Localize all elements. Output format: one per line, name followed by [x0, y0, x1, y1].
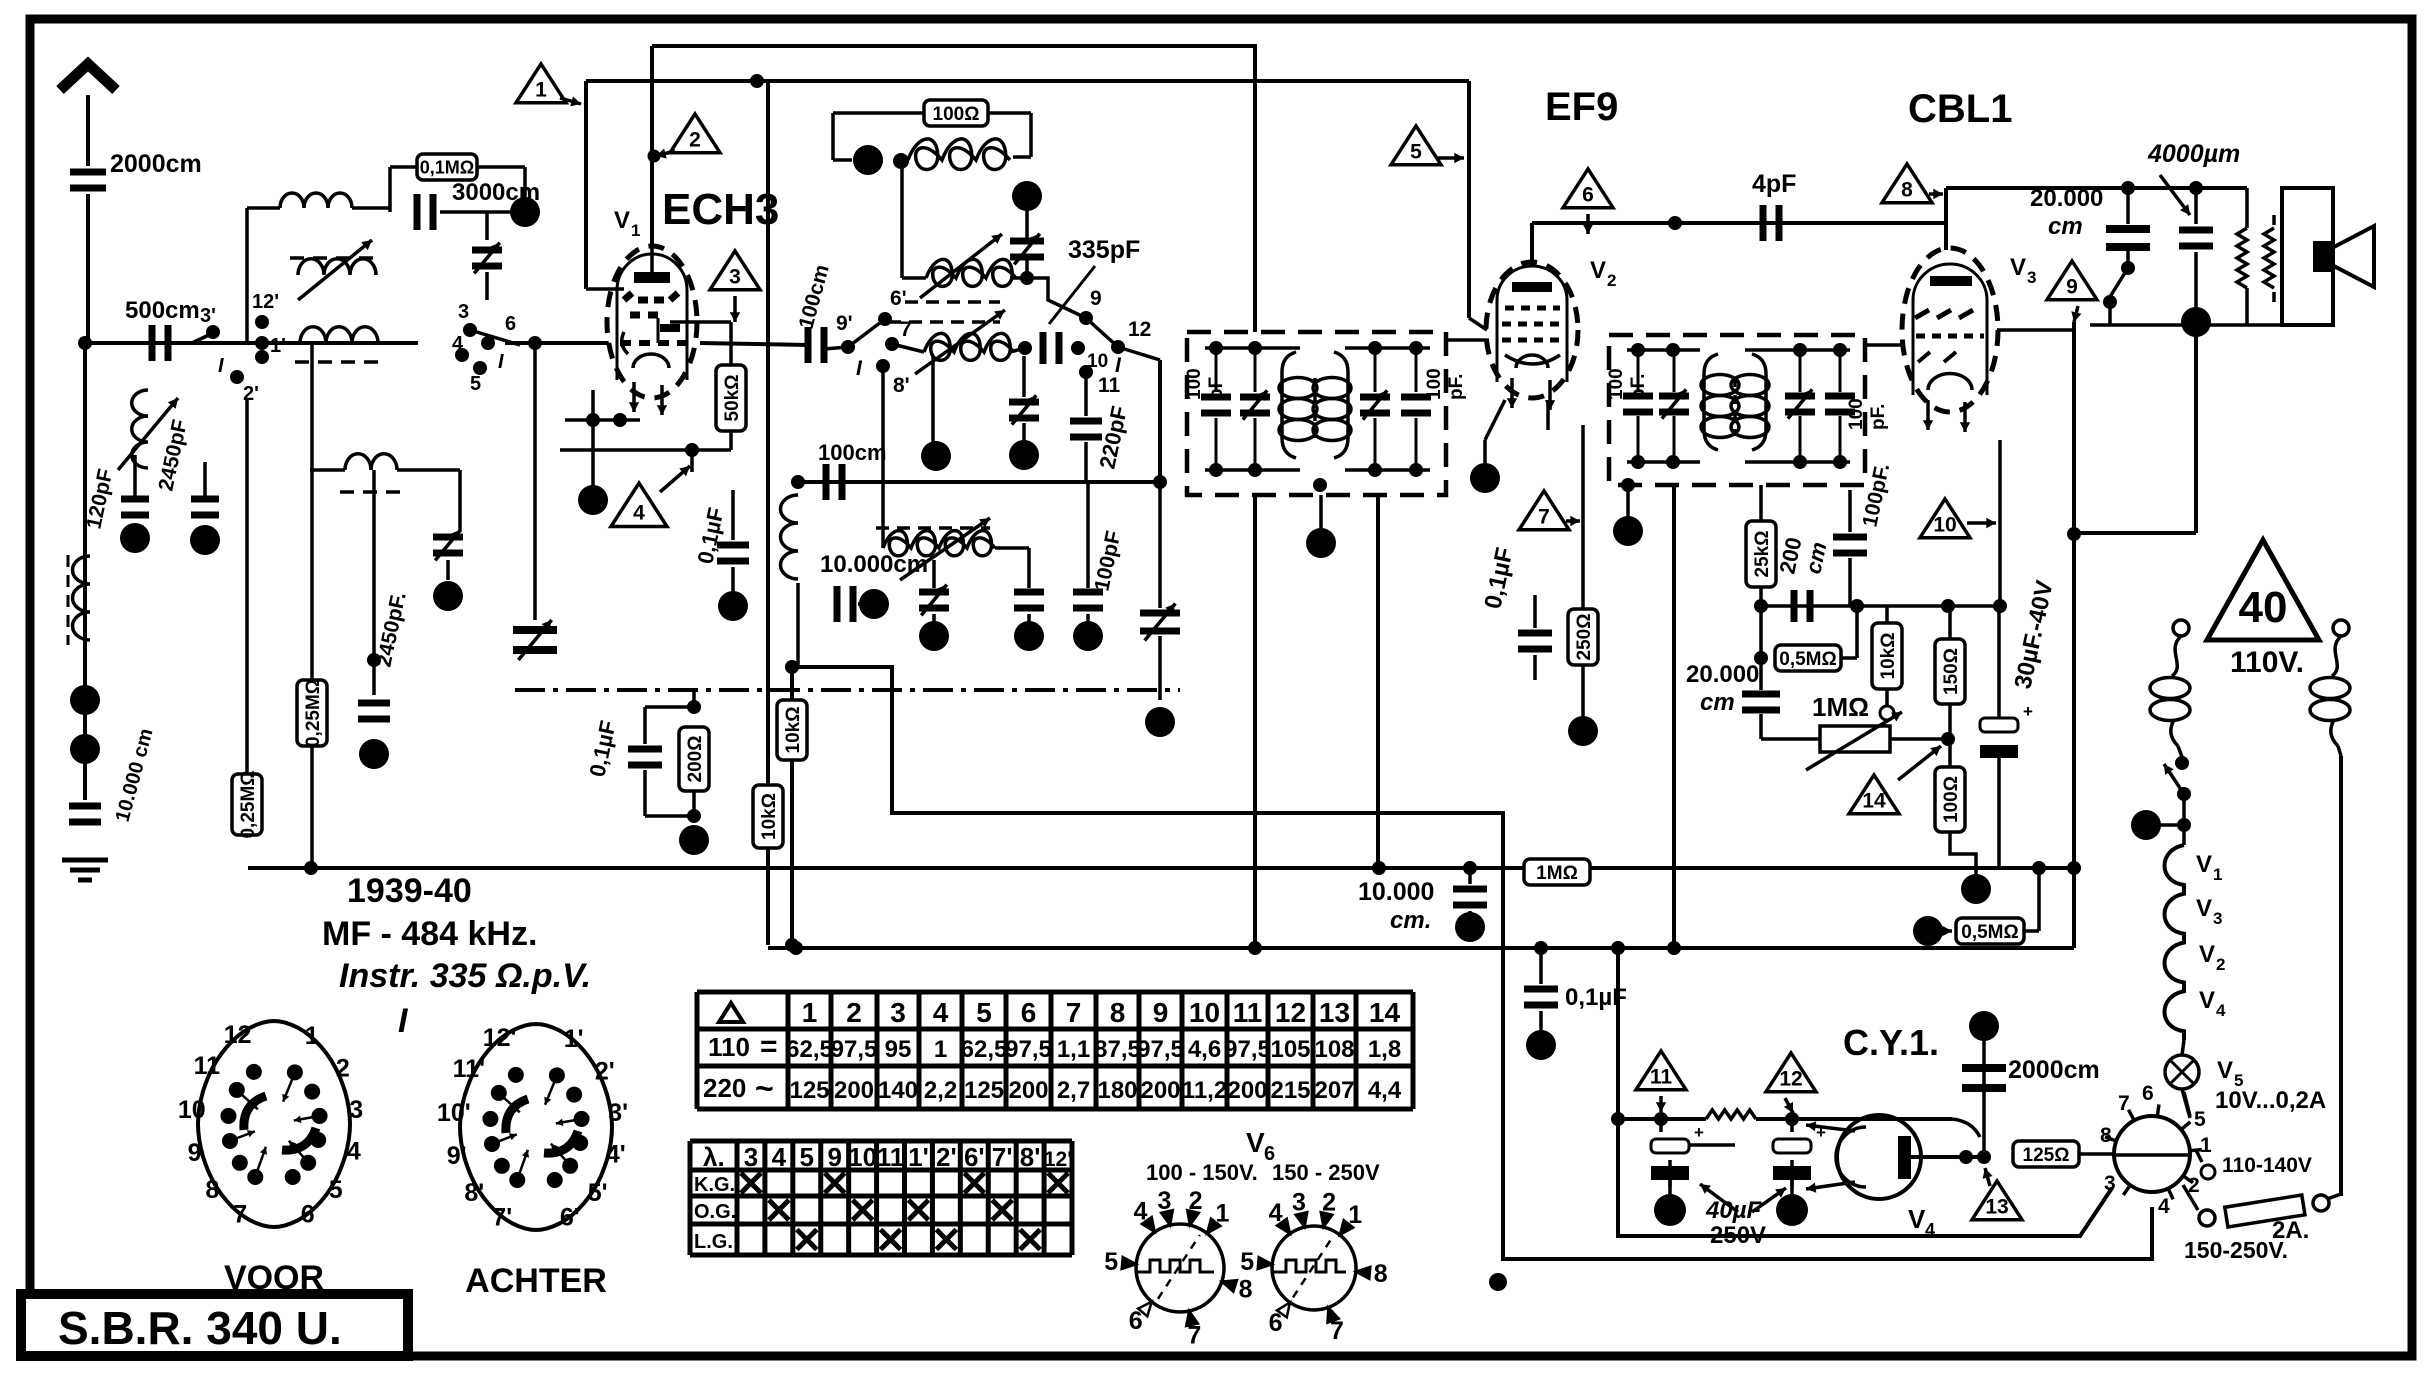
- svg-text:1': 1': [564, 1025, 584, 1053]
- svg-text:3': 3': [200, 305, 216, 327]
- svg-text:4: 4: [2158, 1195, 2170, 1218]
- svg-text:4: 4: [933, 997, 949, 1028]
- svg-text:10V...0,2A: 10V...0,2A: [2215, 1087, 2326, 1114]
- svg-text:2': 2': [595, 1058, 615, 1086]
- svg-text:500cm: 500cm: [125, 297, 200, 324]
- svg-text:3: 3: [729, 266, 741, 289]
- svg-text:6: 6: [1582, 184, 1594, 207]
- svg-text:V: V: [2199, 941, 2215, 968]
- svg-text:2: 2: [1607, 271, 1616, 290]
- svg-text:10: 10: [1933, 514, 1956, 537]
- svg-text:8': 8': [464, 1179, 484, 1207]
- svg-text:3: 3: [349, 1096, 363, 1124]
- svg-text:0,5MΩ: 0,5MΩ: [1779, 649, 1836, 670]
- svg-text:MF - 484 kHz.: MF - 484 kHz.: [322, 915, 537, 953]
- svg-text:100: 100: [1184, 368, 1205, 400]
- svg-text:6': 6': [560, 1203, 580, 1231]
- svg-text:220: 220: [703, 1073, 746, 1103]
- svg-text:pF.: pF.: [1868, 404, 1889, 430]
- svg-text:50kΩ: 50kΩ: [722, 375, 743, 422]
- svg-text:62,5: 62,5: [961, 1036, 1008, 1063]
- svg-text:1: 1: [1216, 1200, 1230, 1228]
- svg-text:125Ω: 125Ω: [2023, 1145, 2070, 1166]
- svg-text:3: 3: [744, 1142, 758, 1172]
- svg-text:200: 200: [834, 1077, 874, 1104]
- svg-text:97,5: 97,5: [1137, 1036, 1184, 1063]
- svg-text:6: 6: [1021, 997, 1037, 1028]
- svg-text:180: 180: [1097, 1077, 1137, 1104]
- svg-text:3: 3: [1158, 1187, 1172, 1215]
- svg-text:1MΩ: 1MΩ: [1812, 692, 1869, 722]
- svg-text:10: 10: [848, 1142, 877, 1172]
- svg-text:97,5: 97,5: [1005, 1036, 1052, 1063]
- svg-text:2: 2: [846, 997, 862, 1028]
- svg-text:8: 8: [1110, 997, 1126, 1028]
- svg-text:I: I: [398, 1002, 409, 1040]
- svg-text:10.000cm: 10.000cm: [820, 551, 928, 578]
- svg-text:1: 1: [934, 1036, 947, 1063]
- svg-text:ECH3: ECH3: [662, 185, 779, 234]
- svg-text:2: 2: [1189, 1187, 1203, 1215]
- svg-text:1: 1: [1348, 1201, 1362, 1229]
- svg-text:9': 9': [447, 1142, 467, 1170]
- svg-text:4,4: 4,4: [1368, 1077, 1402, 1104]
- svg-text:1MΩ: 1MΩ: [1536, 863, 1578, 884]
- svg-text:EF9: EF9: [1545, 85, 1618, 129]
- svg-text:8: 8: [205, 1176, 219, 1204]
- svg-text:6: 6: [1129, 1307, 1143, 1335]
- svg-text:150Ω: 150Ω: [1941, 648, 1962, 695]
- svg-text:5: 5: [1410, 141, 1422, 164]
- svg-text:2: 2: [1322, 1189, 1336, 1217]
- svg-text:110-140V: 110-140V: [2222, 1154, 2312, 1177]
- svg-text:1: 1: [305, 1022, 319, 1050]
- svg-text:14: 14: [1862, 790, 1886, 813]
- svg-text:250V: 250V: [1710, 1222, 1766, 1249]
- svg-text:V: V: [1590, 257, 1606, 284]
- svg-text:11: 11: [194, 1052, 221, 1080]
- svg-text:200Ω: 200Ω: [685, 736, 706, 783]
- svg-text:4000µm: 4000µm: [2147, 140, 2240, 168]
- svg-text:4: 4: [772, 1142, 787, 1172]
- svg-text:C.Y.1.: C.Y.1.: [1843, 1022, 1939, 1063]
- svg-text:95: 95: [885, 1036, 912, 1063]
- svg-text:9': 9': [836, 312, 853, 335]
- svg-text:10: 10: [1087, 351, 1108, 372]
- svg-text:+: +: [2023, 702, 2033, 721]
- svg-text:5: 5: [1104, 1248, 1118, 1276]
- svg-text:8': 8': [1020, 1142, 1041, 1172]
- svg-text:8: 8: [1901, 179, 1913, 202]
- svg-text:9: 9: [188, 1139, 202, 1167]
- svg-text:8: 8: [1374, 1260, 1388, 1288]
- svg-text:100Ω: 100Ω: [933, 104, 980, 125]
- svg-text:108: 108: [1314, 1036, 1354, 1063]
- svg-text:7': 7': [992, 1142, 1013, 1172]
- svg-text:5: 5: [800, 1142, 814, 1172]
- svg-text:4: 4: [1133, 1197, 1147, 1225]
- svg-text:20.000: 20.000: [1686, 661, 1759, 688]
- svg-text:8: 8: [2100, 1124, 2112, 1147]
- svg-text:25kΩ: 25kΩ: [1752, 531, 1773, 578]
- svg-text:12: 12: [1128, 318, 1151, 341]
- svg-text:1: 1: [2213, 865, 2222, 884]
- svg-text:1: 1: [2200, 1134, 2212, 1157]
- svg-text:13: 13: [1985, 1196, 2008, 1219]
- svg-text:3: 3: [2213, 909, 2222, 928]
- svg-text:100: 100: [1846, 398, 1867, 430]
- svg-text:0,5MΩ: 0,5MΩ: [1961, 922, 2018, 943]
- svg-text:5: 5: [1240, 1248, 1254, 1276]
- svg-text:V: V: [1246, 1127, 1265, 1158]
- svg-text:V: V: [2196, 895, 2212, 922]
- svg-text:100cm: 100cm: [818, 440, 887, 465]
- svg-text:5': 5': [588, 1179, 608, 1207]
- svg-text:12': 12': [483, 1024, 517, 1052]
- svg-text:pF.: pF.: [1628, 374, 1649, 400]
- svg-text:7: 7: [1187, 1321, 1201, 1349]
- svg-text:150 - 250V: 150 - 250V: [1272, 1160, 1380, 1185]
- svg-text:4: 4: [1269, 1199, 1283, 1227]
- svg-text:100: 100: [1424, 368, 1445, 400]
- svg-text:11': 11': [453, 1055, 485, 1083]
- svg-text:11,2: 11,2: [1182, 1077, 1227, 1104]
- svg-text:cm.: cm.: [1390, 907, 1431, 934]
- svg-text:2,2: 2,2: [924, 1077, 957, 1104]
- svg-text:2000cm: 2000cm: [2008, 1056, 2100, 1084]
- svg-text:97,5: 97,5: [1224, 1036, 1271, 1063]
- svg-text:6: 6: [1269, 1309, 1283, 1337]
- svg-text:87,5: 87,5: [1094, 1036, 1141, 1063]
- svg-text:0,1MΩ: 0,1MΩ: [420, 157, 474, 177]
- svg-text:7: 7: [2118, 1092, 2130, 1115]
- svg-text:2,7: 2,7: [1057, 1077, 1090, 1104]
- svg-text:125: 125: [964, 1077, 1004, 1104]
- svg-text:12: 12: [1275, 997, 1306, 1028]
- svg-text:V: V: [2196, 851, 2212, 878]
- svg-text:207: 207: [1314, 1077, 1354, 1104]
- svg-text:11: 11: [1233, 997, 1263, 1028]
- svg-text:4: 4: [633, 502, 645, 525]
- svg-text:1,1: 1,1: [1057, 1036, 1090, 1063]
- svg-text:10: 10: [178, 1096, 206, 1124]
- svg-text:V: V: [2199, 987, 2215, 1014]
- svg-text:140: 140: [878, 1077, 918, 1104]
- svg-text:V: V: [614, 207, 630, 234]
- svg-text:97,5: 97,5: [831, 1036, 878, 1063]
- svg-text:4: 4: [452, 333, 464, 355]
- svg-text:1939-40: 1939-40: [347, 872, 472, 910]
- svg-text:3: 3: [1292, 1189, 1306, 1217]
- svg-text:pF.: pF.: [1446, 374, 1467, 400]
- svg-text:125: 125: [789, 1077, 829, 1104]
- svg-text:7: 7: [1538, 506, 1550, 529]
- svg-text:6': 6': [964, 1142, 985, 1172]
- svg-text:9: 9: [1153, 997, 1169, 1028]
- svg-text:200: 200: [1008, 1077, 1048, 1104]
- svg-text:100: 100: [1606, 368, 1627, 400]
- svg-text:12: 12: [224, 1021, 252, 1049]
- svg-text:7': 7': [492, 1203, 512, 1231]
- svg-text:11: 11: [1650, 1066, 1673, 1089]
- svg-text:5: 5: [329, 1176, 343, 1204]
- svg-text:cm: cm: [2048, 213, 2083, 240]
- svg-text:0,25MΩ: 0,25MΩ: [303, 679, 324, 747]
- svg-text:1: 1: [535, 79, 547, 102]
- svg-text:10.000: 10.000: [1358, 878, 1434, 906]
- svg-text:6': 6': [890, 287, 907, 310]
- svg-text:2: 2: [689, 129, 701, 152]
- svg-text:2': 2': [936, 1142, 957, 1172]
- svg-text:λ.: λ.: [703, 1142, 725, 1172]
- svg-text:Instr. 335 Ω.p.V.: Instr. 335 Ω.p.V.: [339, 957, 591, 995]
- svg-text:O.G.: O.G.: [694, 1201, 736, 1223]
- svg-text:L.G.: L.G.: [694, 1231, 733, 1253]
- svg-text:7: 7: [1330, 1317, 1344, 1345]
- svg-text:62,5: 62,5: [786, 1036, 833, 1063]
- svg-text:110V.: 110V.: [2230, 646, 2304, 679]
- svg-text:3: 3: [458, 301, 469, 323]
- svg-text:2: 2: [336, 1055, 350, 1083]
- svg-text:V: V: [2010, 254, 2026, 281]
- svg-text:7: 7: [1066, 997, 1082, 1028]
- svg-text:10kΩ: 10kΩ: [759, 793, 780, 840]
- svg-text:4: 4: [1925, 1220, 1935, 1240]
- svg-text:100 - 150V.: 100 - 150V.: [1146, 1160, 1258, 1185]
- svg-text:4: 4: [347, 1137, 361, 1165]
- svg-text:2A.: 2A.: [2272, 1217, 2309, 1244]
- svg-text:10kΩ: 10kΩ: [1878, 633, 1899, 680]
- svg-text:K.G.: K.G.: [694, 1174, 735, 1196]
- svg-text:12': 12': [1044, 1148, 1072, 1171]
- svg-text:I: I: [498, 351, 504, 373]
- svg-text:+: +: [1694, 1123, 1704, 1142]
- svg-text:6: 6: [2142, 1082, 2154, 1105]
- svg-text:3: 3: [890, 997, 906, 1028]
- svg-text:10: 10: [1189, 997, 1220, 1028]
- svg-text:1,8: 1,8: [1368, 1036, 1401, 1063]
- svg-text:6: 6: [505, 313, 516, 335]
- svg-text:12: 12: [1779, 1068, 1802, 1091]
- svg-text:1: 1: [802, 997, 818, 1028]
- svg-text:13: 13: [1319, 997, 1350, 1028]
- svg-text:9: 9: [827, 1142, 841, 1172]
- svg-text:VOOR: VOOR: [224, 1259, 324, 1297]
- svg-text:9: 9: [2066, 276, 2078, 299]
- svg-text:cm: cm: [1700, 689, 1735, 716]
- svg-text:11: 11: [877, 1142, 905, 1172]
- svg-text:6: 6: [301, 1200, 315, 1228]
- svg-text:8': 8': [893, 374, 910, 397]
- svg-text:2000cm: 2000cm: [110, 150, 202, 178]
- svg-text:V: V: [2217, 1057, 2233, 1084]
- svg-text:20.000: 20.000: [2030, 185, 2103, 212]
- svg-text:3: 3: [2104, 1172, 2116, 1195]
- svg-text:10kΩ: 10kΩ: [783, 707, 804, 754]
- svg-text:S.B.R. 340 U.: S.B.R. 340 U.: [58, 1302, 342, 1354]
- svg-text:11: 11: [1098, 374, 1121, 397]
- svg-text:2: 2: [2216, 955, 2225, 974]
- svg-text:I: I: [218, 355, 224, 377]
- svg-text:1: 1: [631, 221, 640, 240]
- svg-text:1': 1': [270, 335, 286, 357]
- svg-text:5: 5: [976, 997, 992, 1028]
- svg-text:CBL1: CBL1: [1908, 87, 2012, 131]
- svg-text:250Ω: 250Ω: [1574, 614, 1595, 661]
- svg-text:200: 200: [1227, 1077, 1267, 1104]
- svg-text:200: 200: [1140, 1077, 1180, 1104]
- svg-text:9: 9: [1090, 287, 1102, 310]
- svg-text:3: 3: [2027, 268, 2036, 287]
- svg-text:ACHTER: ACHTER: [465, 1262, 607, 1300]
- svg-text:5: 5: [2194, 1108, 2206, 1131]
- svg-text:5: 5: [470, 373, 481, 395]
- svg-text:1': 1': [908, 1142, 929, 1172]
- svg-text:12': 12': [252, 291, 279, 313]
- svg-text:7: 7: [233, 1200, 247, 1228]
- svg-text:V: V: [1908, 1204, 1926, 1234]
- svg-text:4,6: 4,6: [1188, 1036, 1221, 1063]
- svg-text:0,25MΩ: 0,25MΩ: [238, 770, 259, 838]
- svg-text:10': 10': [437, 1099, 471, 1127]
- svg-text:215: 215: [1270, 1077, 1310, 1104]
- svg-text:4: 4: [2216, 1001, 2226, 1020]
- svg-text:=: =: [760, 1030, 778, 1063]
- svg-text:pF: pF: [1206, 377, 1227, 400]
- svg-text:4': 4': [606, 1140, 626, 1168]
- svg-text:~: ~: [755, 1070, 774, 1106]
- svg-text:4pF: 4pF: [1752, 170, 1796, 198]
- svg-text:335pF: 335pF: [1068, 236, 1140, 264]
- svg-text:14: 14: [1369, 997, 1401, 1028]
- svg-text:105: 105: [1270, 1036, 1310, 1063]
- svg-text:8: 8: [1239, 1275, 1253, 1303]
- svg-text:3': 3': [608, 1099, 628, 1127]
- svg-text:40: 40: [2239, 583, 2288, 632]
- svg-text:110: 110: [708, 1032, 750, 1062]
- svg-text:100Ω: 100Ω: [1941, 776, 1962, 823]
